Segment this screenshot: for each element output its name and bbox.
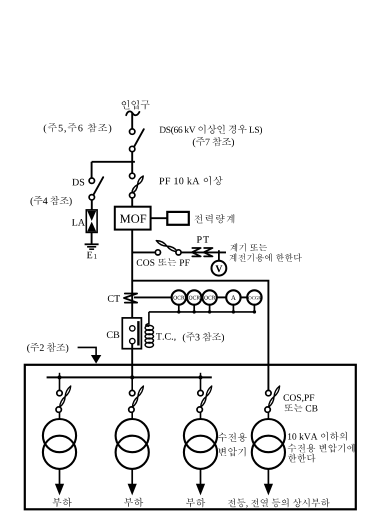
label 상시부하 <box>228 498 330 507</box>
wire relay drops <box>178 305 180 312</box>
switch branch 4 top contact <box>266 390 271 395</box>
wire branch 3 drop <box>200 377 202 390</box>
wire TC feed <box>148 312 150 325</box>
switch branch 2 blade <box>132 386 143 407</box>
label 10kVA 이하의 <box>288 432 347 441</box>
load section box <box>25 365 356 510</box>
transformer T1 secondary <box>43 436 76 469</box>
relay bus wire <box>149 311 255 313</box>
power fuse PF blade <box>132 176 143 193</box>
wire <box>91 232 93 244</box>
label 또는 CB <box>284 404 317 411</box>
disconnect switch DS1 top contact <box>130 129 135 134</box>
switch branch 4 blade <box>269 386 280 407</box>
ground E1 bar1 <box>85 243 99 245</box>
wire branch 2 drop <box>131 377 133 390</box>
transformer T4 primary <box>252 419 285 452</box>
wire relay links <box>217 296 227 298</box>
label 수전용 <box>218 433 247 442</box>
wire branch 1 <box>59 412 61 419</box>
ammeter A <box>226 290 240 304</box>
label COS,PF <box>284 394 315 402</box>
wire <box>91 200 93 210</box>
note2 arrow <box>78 347 97 356</box>
load arrow branch 4 <box>267 469 269 486</box>
wire right feeder <box>132 281 268 391</box>
entry point symbol <box>126 111 139 115</box>
label CT <box>108 295 120 302</box>
junction branch 1 <box>58 375 62 379</box>
arrester LA bottom triangle <box>87 222 96 232</box>
label MOF <box>120 215 146 223</box>
disconnect switch DS2 blade <box>94 177 104 195</box>
wire <box>131 113 133 129</box>
label PF 10 kA <box>159 176 222 186</box>
junction branch 3 <box>199 375 203 379</box>
ground E1 bar3 <box>89 248 94 250</box>
cutout COS blade <box>156 241 177 252</box>
wire branch 3 <box>200 412 202 419</box>
transformer T2 secondary <box>116 436 149 469</box>
wire <box>131 344 133 378</box>
power fuse PF top contact <box>130 173 135 178</box>
arrester LA top triangle <box>87 211 96 221</box>
label 부하 2 <box>124 498 143 507</box>
label T.C. <box>156 333 175 341</box>
label LA <box>72 219 85 226</box>
metering outfit MOF box <box>115 207 151 230</box>
switch branch 2 top contact <box>130 390 135 395</box>
transformer T2 primary <box>116 419 149 452</box>
wire to watt-hour meter <box>151 217 168 219</box>
relay OCR 3 <box>202 290 216 304</box>
wire <box>131 230 133 326</box>
voltmeter circle <box>212 261 227 276</box>
label CB <box>107 331 120 338</box>
label COS 또는 PF <box>137 259 190 266</box>
load arrow branch 1 <box>59 469 61 486</box>
transformer T3 secondary <box>184 436 217 469</box>
wire CT to relays <box>134 296 172 298</box>
label DS <box>72 179 84 186</box>
label PT <box>197 236 209 243</box>
pot transformer PT winding 2 <box>204 248 213 256</box>
label 수전용 변압기에 <box>288 444 355 453</box>
disconnect switch DS2 bottom contact <box>89 195 94 200</box>
wire voltmeter drop <box>218 250 220 261</box>
switch branch 3 blade <box>201 386 212 407</box>
wire branch 2 <box>131 412 133 419</box>
current transformer CT <box>124 294 137 303</box>
trip coil TC <box>146 324 149 327</box>
transformer T1 primary <box>43 419 76 452</box>
disconnect switch DS2 top contact <box>89 178 94 183</box>
junction dots relay bus <box>177 310 180 313</box>
ground E1 bar2 <box>87 246 96 248</box>
watt-hour meter box <box>167 212 189 225</box>
label 변압기 <box>218 447 245 456</box>
load arrow branch 2 <box>131 469 133 486</box>
label 전력량계 <box>194 214 234 223</box>
junction branch 2 <box>130 375 134 379</box>
breaker CB box <box>122 318 141 349</box>
label service entrance 인입구 <box>122 100 150 110</box>
transformer T3 primary <box>184 419 217 452</box>
label 부하 3 <box>186 498 205 507</box>
label 주7 <box>193 137 234 147</box>
label E1 <box>87 252 92 259</box>
label 계기 또는 <box>230 243 267 251</box>
switch branch 1 blade <box>60 386 71 407</box>
switch branch 2 bottom contact <box>129 407 134 412</box>
relay OCGR <box>247 290 261 304</box>
wire <box>131 152 133 174</box>
breaker CB bar <box>137 321 139 345</box>
disconnect switch DS1 blade <box>134 129 144 146</box>
label 주5 주6 <box>44 123 112 133</box>
label V <box>215 265 222 272</box>
wire <box>181 251 226 253</box>
breaker CB bottom contact <box>130 338 135 343</box>
switch branch 1 bottom contact <box>56 407 61 412</box>
label 한한다 <box>288 454 315 463</box>
relay OCR 1 <box>172 290 186 304</box>
breaker CB top contact <box>130 326 135 331</box>
switch branch 3 top contact <box>198 390 203 395</box>
bus wire <box>47 376 212 378</box>
wire junction to LA branch <box>92 161 135 163</box>
label 주2 <box>27 343 68 353</box>
cutout COS right contact <box>176 250 181 255</box>
label 주3 <box>183 332 224 342</box>
power fuse PF bottom contact <box>130 193 135 198</box>
label 계전기용에 한한다 <box>230 253 302 262</box>
disconnect switch DS1 bottom contact <box>130 146 135 151</box>
label 주4 <box>31 196 72 206</box>
wire branch 1 drop <box>59 377 61 390</box>
label DS 66kV <box>160 125 262 135</box>
switch branch 1 top contact <box>57 390 62 395</box>
wire <box>131 198 133 207</box>
relay OCR 2 <box>187 290 201 304</box>
label 부하 1 <box>52 498 71 507</box>
switch branch 3 bottom contact <box>197 407 202 412</box>
switch branch 4 bottom contact <box>265 407 270 412</box>
arrester LA box <box>86 210 97 233</box>
load arrow branch 3 <box>200 469 202 486</box>
transformer T4 secondary <box>252 436 285 469</box>
pot transformer PT winding 1 <box>192 248 201 256</box>
wire branch 4 <box>267 412 269 419</box>
wire <box>91 162 93 178</box>
wire COS branch <box>132 251 155 253</box>
cutout COS left contact <box>155 250 160 255</box>
